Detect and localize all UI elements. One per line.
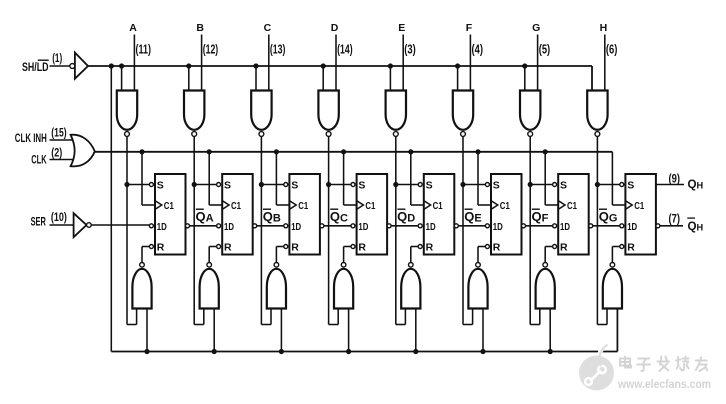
- svg-text:C1: C1: [164, 200, 174, 212]
- svg-text:(2): (2): [51, 147, 62, 159]
- svg-text:(3): (3): [404, 43, 416, 57]
- svg-text:(9): (9): [669, 173, 681, 185]
- svg-text:S: S: [627, 180, 634, 192]
- svg-text:C: C: [264, 22, 272, 34]
- svg-text:C1: C1: [365, 200, 375, 212]
- svg-text:(10): (10): [51, 212, 67, 224]
- svg-text:A: A: [129, 22, 137, 34]
- svg-text:H: H: [600, 22, 608, 34]
- svg-text:S: S: [157, 180, 164, 192]
- svg-text:1D: 1D: [560, 221, 570, 233]
- svg-text:C1: C1: [298, 200, 308, 212]
- svg-text:S: S: [560, 180, 567, 192]
- svg-text:R: R: [358, 242, 366, 254]
- svg-text:D: D: [331, 22, 339, 34]
- svg-text:(13): (13): [270, 43, 286, 57]
- svg-text:E: E: [398, 22, 405, 34]
- svg-text:C1: C1: [634, 200, 644, 212]
- svg-text:S: S: [358, 180, 365, 192]
- svg-text:1D: 1D: [291, 221, 301, 233]
- svg-text:B: B: [196, 22, 204, 34]
- svg-text:1D: 1D: [493, 221, 503, 233]
- svg-text:1D: 1D: [426, 221, 436, 233]
- svg-text:G: G: [532, 22, 540, 34]
- svg-text:QH: QH: [688, 178, 704, 191]
- svg-text:SER: SER: [31, 214, 46, 228]
- svg-text:(6): (6): [606, 43, 618, 57]
- svg-text:1D: 1D: [627, 221, 637, 233]
- svg-text:R: R: [224, 242, 232, 254]
- svg-text:R: R: [493, 242, 501, 254]
- svg-text:(5): (5): [539, 43, 551, 57]
- svg-text:(12): (12): [203, 43, 219, 57]
- svg-text:1D: 1D: [157, 221, 167, 233]
- svg-text:F: F: [466, 22, 473, 34]
- svg-text:CLK: CLK: [31, 152, 47, 166]
- svg-text:C1: C1: [567, 200, 577, 212]
- svg-text:R: R: [291, 242, 299, 254]
- svg-text:(11): (11): [136, 43, 152, 57]
- svg-text:R: R: [560, 242, 568, 254]
- svg-text:1D: 1D: [358, 221, 368, 233]
- svg-text:R: R: [157, 242, 165, 254]
- svg-text:R: R: [627, 242, 635, 254]
- svg-text:C1: C1: [433, 200, 443, 212]
- svg-text:www.elecfans.com: www.elecfans.com: [617, 377, 711, 391]
- svg-text:C1: C1: [231, 200, 241, 212]
- svg-text:(14): (14): [337, 43, 353, 57]
- svg-text:(15): (15): [51, 127, 66, 139]
- svg-text:R: R: [426, 242, 434, 254]
- svg-text:CLK INH: CLK INH: [15, 131, 47, 145]
- svg-text:(7): (7): [669, 214, 681, 226]
- svg-text:(4): (4): [472, 43, 484, 57]
- svg-text:S: S: [224, 180, 231, 192]
- svg-text:QH: QH: [688, 220, 704, 233]
- svg-text:(1): (1): [52, 53, 62, 65]
- svg-text:S: S: [493, 180, 500, 192]
- svg-text:C1: C1: [500, 200, 510, 212]
- svg-text:1D: 1D: [224, 221, 234, 233]
- svg-text:S: S: [426, 180, 433, 192]
- svg-text:S: S: [291, 180, 298, 192]
- svg-text:SH/LD: SH/LD: [22, 60, 49, 74]
